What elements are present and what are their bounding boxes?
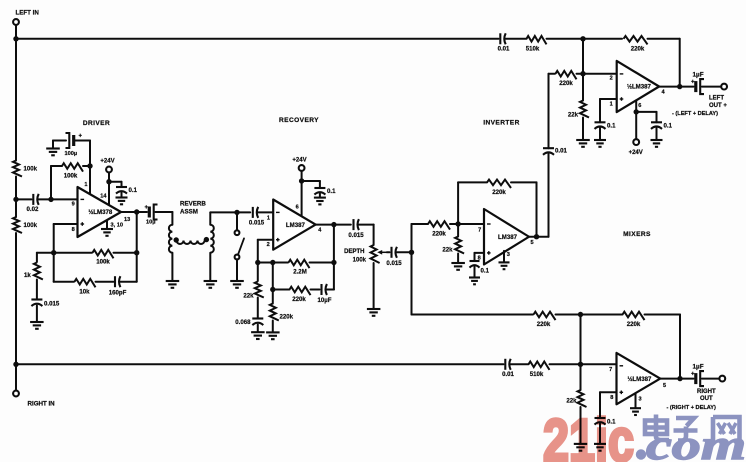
wire 22k left mixer — [582, 74, 584, 101]
svg-text:220k: 220k — [559, 80, 573, 87]
node fb right — [331, 260, 336, 265]
svg-text:0.02: 0.02 — [27, 206, 39, 213]
resistor 2.2M feedback — [289, 260, 310, 268]
node left mix input — [580, 71, 585, 76]
svg-text:OUT +: OUT + — [709, 103, 727, 109]
svg-text:1: 1 — [84, 182, 87, 188]
svg-text:5: 5 — [663, 383, 666, 389]
ground 100uF — [46, 147, 60, 149]
wire to 100k bias — [51, 165, 62, 167]
capacitor 1uF left out — [694, 81, 697, 92]
resistor 100k input divider lower — [13, 217, 22, 233]
wire pin 6 left mixer — [635, 100, 637, 112]
wire pin 1 — [89, 166, 91, 195]
node 220k branch — [270, 287, 275, 292]
wire pin1 node up to 100uF — [89, 141, 91, 167]
svg-text:+24V: +24V — [100, 159, 114, 165]
wire pin 6 recovery — [301, 181, 303, 217]
svg-text:1: 1 — [610, 102, 613, 108]
svg-text:6: 6 — [638, 103, 641, 109]
wire switch to ground — [236, 260, 238, 281]
wire pin8 down to feedback — [53, 224, 55, 253]
wire fb top right — [511, 181, 537, 183]
wire 2.2M line — [258, 262, 288, 264]
ground 0.1 driver — [116, 196, 128, 198]
svg-text:+: + — [145, 205, 149, 211]
node right mixer output — [677, 376, 682, 381]
svg-text:0.01: 0.01 — [502, 371, 514, 378]
svg-text:+: + — [691, 372, 695, 378]
wire 22k to 0.068 — [257, 298, 259, 319]
watermark dot — [636, 449, 646, 459]
wire 1k branch down — [36, 253, 38, 262]
resistor 220k right feedback — [623, 312, 645, 320]
svg-text:RECOVERY: RECOVERY — [279, 117, 319, 124]
resistor 22k left mixer — [580, 101, 589, 118]
svg-text:LEFT IN: LEFT IN — [16, 10, 40, 17]
watermark char zi — [674, 418, 698, 441]
op-amp U4 half LM387 left mixer — [617, 61, 659, 112]
capacitor 0.1 driver bypass — [116, 186, 127, 188]
svg-text:3: 3 — [507, 252, 510, 258]
svg-text:- (RIGHT + DELAY): - (RIGHT + DELAY) — [667, 405, 716, 411]
svg-text:+: + — [691, 80, 695, 86]
wire bias node up — [50, 166, 52, 199]
wire inverter fb up — [457, 182, 459, 224]
wiper arrow — [380, 251, 386, 253]
terminal RIGHT IN — [13, 391, 19, 397]
node +24V driver — [106, 179, 111, 184]
capacitor 0.01 right rail — [504, 359, 506, 370]
svg-text:1k: 1k — [24, 272, 31, 279]
resistor 22k inverter — [455, 237, 464, 254]
svg-text:0.1: 0.1 — [481, 268, 490, 275]
svg-text:DEPTH: DEPTH — [344, 249, 364, 255]
wire feedback down to output — [679, 39, 681, 87]
resistor 10k feedback — [75, 279, 96, 287]
ground 220k recovery — [266, 331, 280, 333]
wire 0.1 pin1 ground — [599, 128, 601, 139]
wire pin 3 inverter — [503, 251, 505, 262]
wire 1k to 0.015 — [36, 280, 38, 300]
capacitor 0.015 depth in — [352, 219, 354, 230]
svg-text:2.2M: 2.2M — [293, 269, 307, 276]
capacitor 0.015 depth out — [390, 247, 392, 258]
resistor 510k right rail — [529, 362, 550, 370]
capacitor 0.1 inverter — [470, 260, 480, 262]
wire 22k lm ground — [582, 118, 584, 140]
wire to inverter node — [450, 223, 484, 225]
terminal +24V left mixer — [633, 139, 639, 145]
ground 0.1 right mixer — [594, 443, 606, 445]
svg-text:5: 5 — [531, 240, 534, 246]
svg-text:LEFT: LEFT — [709, 96, 724, 102]
svg-text:22k: 22k — [243, 293, 254, 300]
ground 0.1 pin1 — [594, 139, 606, 141]
node +24V recovery — [299, 178, 304, 183]
wire 0.015 to pin 1 — [258, 211, 273, 213]
svg-text:100k: 100k — [24, 166, 38, 173]
resistor 1k — [34, 263, 43, 280]
wire right fb down — [679, 315, 681, 379]
resistor 510k (left rail) — [527, 36, 547, 44]
terminal +24V driver — [106, 167, 112, 173]
wire 510k to right mix node — [550, 363, 617, 365]
node driver input on rail — [13, 197, 18, 202]
svg-text:220k: 220k — [537, 321, 551, 328]
svg-text:+: + — [79, 134, 83, 140]
node delay split — [409, 250, 414, 255]
svg-text:LM387: LM387 — [286, 222, 306, 229]
node driver output — [134, 209, 139, 214]
ground 0.1 supply — [651, 139, 663, 141]
wire inverter out up — [548, 154, 550, 237]
wire to 10uF — [311, 289, 320, 291]
svg-text:MIXERS: MIXERS — [623, 231, 651, 238]
svg-text:0.1: 0.1 — [129, 187, 138, 194]
watermark char wang — [713, 417, 740, 442]
resistor 22k recovery — [255, 282, 264, 298]
svg-text:22k: 22k — [442, 247, 453, 254]
wire 22k inverter ground — [457, 254, 459, 263]
op-amp U2 LM387 recovery — [273, 200, 315, 250]
wire inverter fb top — [458, 181, 487, 183]
wire to LEFT OUT — [702, 86, 721, 88]
ground switch — [230, 280, 244, 282]
capacitor 100uF electrolytic — [72, 135, 75, 146]
wire delay rail to node — [556, 314, 623, 316]
svg-text:100k: 100k — [24, 222, 38, 229]
wire pins 3,10 ground — [106, 221, 108, 229]
wire 220k fb right corner — [645, 314, 681, 316]
capacitor 0.01 (left rail) — [499, 33, 501, 44]
wire 0.1 rm ground — [599, 424, 601, 444]
wire 0.1 inverter ground — [474, 266, 476, 276]
node spring right — [204, 237, 209, 242]
resistor 100k feedback — [93, 250, 114, 258]
wire left mixer output — [659, 86, 693, 88]
resistor 220k recovery vertical — [270, 304, 279, 321]
wire pin 1 left mixer — [600, 98, 617, 100]
switch mute contact bottom — [235, 255, 240, 260]
svg-text:+24V: +24V — [292, 158, 306, 164]
wire inverter output — [529, 236, 549, 238]
wire 0.01 up — [548, 74, 550, 149]
node 220k tap — [270, 260, 275, 265]
wire 2.2M right — [310, 262, 334, 264]
svg-text:1µF: 1µF — [693, 364, 704, 371]
svg-text:LM387: LM387 — [498, 234, 518, 241]
wire recovery output — [316, 224, 351, 226]
svg-text:½LM387: ½LM387 — [627, 376, 652, 383]
svg-text:½LM378: ½LM378 — [88, 209, 113, 216]
resistor 220k left feedback — [624, 36, 648, 44]
wire pickup coil to ground — [209, 253, 211, 280]
wire pin 8 right mixer — [600, 391, 617, 393]
svg-text:8: 8 — [610, 395, 613, 401]
wire 510k to node — [547, 38, 623, 40]
node fb left — [255, 260, 260, 265]
wire split up to inverter — [411, 224, 413, 252]
wire +24V down — [108, 172, 110, 181]
node left mixer output — [677, 84, 682, 89]
resistor 22k right mixer — [578, 390, 587, 407]
wire feedback line 2 left leg — [53, 253, 55, 282]
wire mix node down — [582, 39, 584, 74]
node feedback right — [134, 250, 139, 255]
wire fb down to output — [536, 182, 538, 236]
wire feedback line 1 left part — [37, 252, 92, 254]
switch mute contact top — [235, 230, 240, 235]
svg-text:½LM387: ½LM387 — [627, 84, 652, 91]
capacitor 0.068 — [252, 317, 263, 319]
ground depth pot — [367, 308, 381, 310]
svg-text:10µF: 10µF — [317, 297, 331, 304]
node recovery output — [331, 222, 336, 227]
wire 22k rm ground — [580, 407, 582, 443]
wire delay rail — [412, 314, 534, 316]
svg-text:- (LEFT + DELAY): - (LEFT + DELAY) — [672, 111, 718, 117]
wire 10k to 160pF — [96, 281, 114, 283]
wire feedback line 2 right leg — [136, 253, 138, 282]
wire pin 2 recovery — [258, 239, 273, 241]
wire to 220k mixer in — [549, 73, 556, 75]
wire split down to right mixer rail — [411, 252, 413, 314]
capacitor 10uF feedback — [320, 284, 322, 295]
resistor 220k ac feedback — [290, 287, 311, 295]
svg-text:14: 14 — [100, 194, 107, 200]
wire down to RIGHT IN — [15, 364, 17, 390]
capacitor 0.015 recovery input — [252, 207, 254, 218]
svg-text:INVERTER: INVERTER — [483, 120, 520, 127]
wire to input node — [15, 177, 17, 200]
wire switch stem — [236, 212, 238, 230]
wire inverter input — [412, 223, 429, 225]
capacitor 10uF electrolytic output — [148, 207, 151, 218]
wire 0.02 to pin9 — [39, 198, 78, 200]
svg-text:2: 2 — [610, 76, 613, 82]
wire to depth pot — [359, 224, 374, 226]
wire 22k right mixer — [580, 364, 582, 390]
svg-text:+24V: +24V — [629, 150, 643, 156]
svg-text:0.1: 0.1 — [664, 123, 673, 130]
switch blade — [238, 238, 244, 253]
node inverter input — [455, 221, 460, 226]
ground pickup coil — [204, 280, 218, 282]
wire 100uF to ground — [52, 141, 54, 148]
resistor 220k inverter feedback — [487, 180, 511, 188]
inductor spring — [177, 241, 205, 245]
wire rail between 100k — [15, 199, 17, 217]
svg-text:com: com — [646, 423, 746, 462]
svg-text:ASSM: ASSM — [180, 209, 198, 216]
watermark char dian — [645, 415, 669, 441]
svg-text:10k: 10k — [79, 289, 90, 296]
wire 10uF to fb right — [327, 289, 334, 291]
svg-text:3, 10: 3, 10 — [111, 223, 123, 229]
capacitor 0.01 inverter coupling — [543, 147, 554, 149]
wire left input rail down — [15, 39, 17, 161]
node right-in junction — [13, 362, 18, 367]
wire mix node down to right input — [580, 315, 582, 365]
wire 220k vert to ground — [272, 321, 274, 332]
ground 0.068 — [251, 331, 265, 333]
capacitor 0.015 driver — [31, 298, 42, 300]
wire driver output — [121, 211, 147, 213]
svg-text:0.01: 0.01 — [555, 148, 567, 155]
inductor reverb drive coil — [169, 225, 172, 253]
svg-text:220k: 220k — [631, 46, 645, 53]
wire pickup to recovery — [210, 211, 250, 213]
wire 10uF to reverb — [155, 211, 172, 213]
capacitor 0.1 right mixer — [595, 417, 606, 419]
ground 0.015 driver — [30, 321, 43, 323]
wire +24V to 0.1 recovery — [302, 180, 320, 182]
svg-text:1: 1 — [267, 216, 270, 222]
op-amp U5 half LM387 right mixer — [617, 353, 661, 404]
wire after 0.01 right — [511, 363, 529, 365]
svg-text:DRIVER: DRIVER — [83, 120, 110, 127]
svg-text:OUT: OUT — [700, 396, 713, 402]
svg-text:100k: 100k — [96, 259, 110, 266]
wire pin8 input — [54, 223, 78, 225]
node recovery input — [234, 210, 239, 215]
svg-text:510k: 510k — [526, 46, 540, 53]
svg-text:510k: 510k — [530, 371, 544, 378]
wire feedback line 1 right part — [114, 252, 137, 254]
node left-in junction — [13, 36, 18, 41]
wire pin 14 — [108, 182, 110, 206]
svg-text:0.015: 0.015 — [249, 220, 265, 227]
svg-text:RIGHT: RIGHT — [697, 389, 716, 395]
wire 220k to corner — [648, 38, 680, 40]
node driver bias junction — [48, 197, 53, 202]
node inverter output — [534, 234, 539, 239]
ground 0.1 recovery — [314, 197, 326, 199]
svg-text:100k: 100k — [353, 258, 367, 264]
wire pin 2 down — [257, 240, 259, 263]
wire +24V recovery down — [301, 171, 303, 181]
capacitor 0.1 recovery bypass — [314, 187, 325, 189]
wire pickup coil up — [209, 212, 211, 224]
svg-text:22k: 22k — [566, 398, 577, 405]
node left mix top — [580, 36, 585, 41]
capacitor 0.02 input — [32, 194, 34, 205]
wire 0.015 to split node — [397, 251, 412, 253]
wire pin6 to +24V — [635, 112, 637, 139]
svg-text:220k: 220k — [280, 314, 294, 321]
wire rail down to right-in node — [15, 233, 17, 364]
terminal +24V recovery — [299, 165, 305, 171]
terminal LEFT IN — [13, 19, 19, 25]
op-amp U1 half LM378 driver — [78, 187, 122, 237]
terminal LEFT OUT — [721, 84, 727, 90]
wire 160pF to right leg — [121, 281, 137, 283]
wire 100k to pin1 node — [83, 165, 90, 167]
ground driver pins 3,10 — [101, 228, 113, 230]
wire feedback line 2 — [54, 281, 74, 283]
wire to RIGHT OUT — [702, 378, 720, 380]
wire pin8 to 0.1 — [475, 252, 485, 254]
resistor 100k input divider upper — [13, 161, 22, 177]
svg-text:220k: 220k — [292, 296, 306, 303]
wire right mixer output — [660, 378, 693, 380]
resistor 220k delay to right — [534, 312, 556, 320]
wire driver input to cap — [16, 198, 32, 200]
wire 0.1 supply ground — [656, 128, 658, 139]
wire after 0.01 — [506, 38, 527, 40]
svg-text:0.1: 0.1 — [327, 188, 336, 195]
svg-text:0.01: 0.01 — [498, 46, 510, 53]
wire LEFT IN down — [15, 25, 17, 39]
node feedback left — [51, 250, 56, 255]
ground 22k left mixer — [576, 139, 590, 141]
ground 0.1 inverter — [469, 276, 480, 278]
svg-text:0.068: 0.068 — [235, 319, 251, 326]
svg-text:9: 9 — [72, 202, 75, 208]
wire pin6 to 0.1 — [636, 111, 656, 113]
svg-text:REVERB: REVERB — [180, 201, 206, 208]
node pin1 junction — [87, 163, 92, 168]
ground 22k right mixer — [574, 443, 587, 445]
wire 220k-10uF line — [273, 289, 290, 291]
wire top rail — [16, 38, 499, 40]
svg-text:0.015: 0.015 — [44, 301, 60, 308]
wire pin 3 right mixer — [635, 393, 637, 407]
resistor 100k bias — [62, 163, 83, 171]
wire 0.015 to ground — [36, 306, 38, 322]
capacitor 1uF right out — [694, 373, 697, 384]
svg-text:21ic: 21ic — [543, 407, 634, 462]
terminal RIGHT OUT — [719, 376, 725, 382]
op-amp U3 LM387 inverter — [484, 209, 529, 265]
svg-text:0.015: 0.015 — [386, 260, 402, 267]
svg-text:220k: 220k — [627, 321, 641, 328]
wire 22k branch — [257, 263, 259, 282]
svg-text:0.015: 0.015 — [348, 232, 364, 239]
resistor 220k to left mixer — [556, 71, 577, 79]
node spring left — [174, 237, 179, 242]
wire 220k tap down — [272, 263, 274, 290]
wire drive coil to ground — [171, 253, 173, 280]
resistor 220k inverter input — [428, 221, 450, 229]
svg-text:100µ: 100µ — [65, 151, 78, 157]
wire +24V to 0.1 — [109, 181, 122, 183]
svg-text:2: 2 — [267, 242, 270, 248]
wire 0.068 ground — [257, 325, 259, 332]
svg-text:6: 6 — [296, 205, 299, 211]
svg-text:3: 3 — [639, 397, 642, 403]
wire output down to feedback — [136, 212, 138, 253]
capacitor 0.1 supply left mixer — [651, 121, 662, 123]
svg-text:10µ: 10µ — [146, 220, 155, 226]
wire recovery fb vertical — [333, 225, 335, 290]
svg-text:1µF: 1µF — [693, 72, 704, 79]
wire 0.1 to ground — [121, 193, 123, 197]
svg-text:220k: 220k — [492, 189, 506, 196]
svg-text:8: 8 — [72, 227, 75, 233]
wire wiper to 0.015 — [387, 251, 390, 253]
svg-text:160pF: 160pF — [109, 290, 127, 297]
ground pin 3 right mixer — [630, 407, 641, 409]
wire 22k inverter branch — [457, 224, 459, 237]
wire bottom rail — [16, 363, 504, 365]
svg-text:7: 7 — [478, 228, 481, 234]
node right mix top — [578, 312, 583, 317]
svg-text:220k: 220k — [432, 231, 446, 238]
svg-text:22k: 22k — [568, 112, 579, 119]
svg-text:RIGHT IN: RIGHT IN — [28, 401, 56, 408]
